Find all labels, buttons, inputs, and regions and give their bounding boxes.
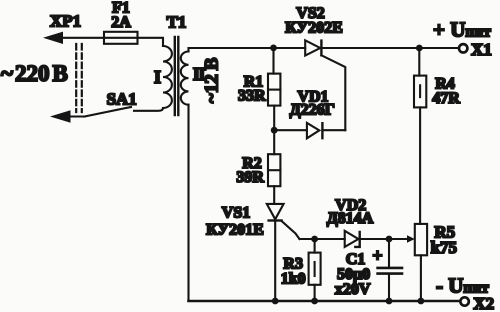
svg-text:SA1: SA1: [107, 90, 137, 109]
switch SA1 arrow (bottom plug): [50, 110, 85, 122]
svg-text:2A: 2A: [111, 14, 131, 31]
wire fuse to transformer: [138, 38, 164, 46]
bottom rail wire: [189, 300, 460, 303]
svg-text:33R: 33R: [238, 87, 266, 104]
transformer core: [175, 37, 179, 115]
node: VS1 cathode on rail: [272, 298, 279, 305]
resistor R4: [414, 48, 426, 224]
svg-text:T1: T1: [167, 13, 187, 32]
svg-text:~220В: ~220В: [1, 61, 68, 86]
mains cord (double dashed line): [76, 44, 82, 112]
svg-text:VS1: VS1: [222, 205, 250, 222]
wire secondary top to VS2 anode: [189, 48, 306, 52]
capacitor C1: [378, 239, 402, 301]
node: C1 branch: [386, 236, 393, 243]
svg-text:~12В: ~12В: [202, 57, 223, 103]
svg-text:КУ202Е: КУ202Е: [285, 20, 343, 37]
switch SA1 lever: [85, 107, 132, 117]
wire secondary bottom lead down: [187, 105, 189, 301]
node: top rail / R1 branch: [270, 45, 277, 52]
svg-text:39R: 39R: [236, 169, 264, 186]
svg-text:XP1: XP1: [50, 12, 81, 31]
svg-text:1k0: 1k0: [281, 270, 306, 287]
node: R3 branch: [311, 236, 318, 243]
terminal X2: [460, 297, 468, 305]
node: R4 branch: [416, 45, 423, 52]
node: C1 on rail: [386, 298, 393, 305]
svg-text:+: +: [372, 246, 382, 266]
fuse F1: [104, 32, 138, 44]
svg-text:I: I: [154, 67, 161, 87]
variable resistor R5: [407, 224, 427, 301]
node: R5 on rail: [418, 298, 425, 305]
svg-text:k75: k75: [431, 238, 457, 257]
svg-text:Д814А: Д814А: [327, 210, 374, 227]
thyristor VS2: [305, 40, 321, 55]
svg-text:Д226Г: Д226Г: [290, 102, 335, 119]
terminal X1: [459, 44, 467, 52]
gate bus wire: [300, 238, 345, 240]
node: R1/VD1/R2 junction: [271, 127, 278, 134]
wire VS2 cathode to X1: [321, 47, 458, 49]
connector XP1 arrow (top plug): [43, 32, 104, 44]
wire switch contact to primary: [134, 108, 163, 111]
node: R3 on rail: [311, 298, 318, 305]
zener VD2: [345, 231, 408, 247]
svg-text:КУ201Е: КУ201Е: [206, 222, 264, 239]
svg-text:X2: X2: [473, 294, 494, 312]
resistor R2: [268, 130, 280, 204]
svg-text:47R: 47R: [432, 90, 460, 107]
VS2 gate wire: [321, 55, 345, 130]
transformer T1 secondary winding II: [181, 52, 189, 105]
thyristor VS1: [267, 204, 300, 301]
svg-text:X1: X1: [471, 40, 492, 59]
diode VD1: [274, 123, 345, 138]
resistor R3: [309, 239, 321, 301]
transformer T1 primary winding I: [163, 46, 172, 108]
svg-text:x20V: x20V: [335, 281, 371, 298]
resistor R1: [268, 48, 280, 130]
